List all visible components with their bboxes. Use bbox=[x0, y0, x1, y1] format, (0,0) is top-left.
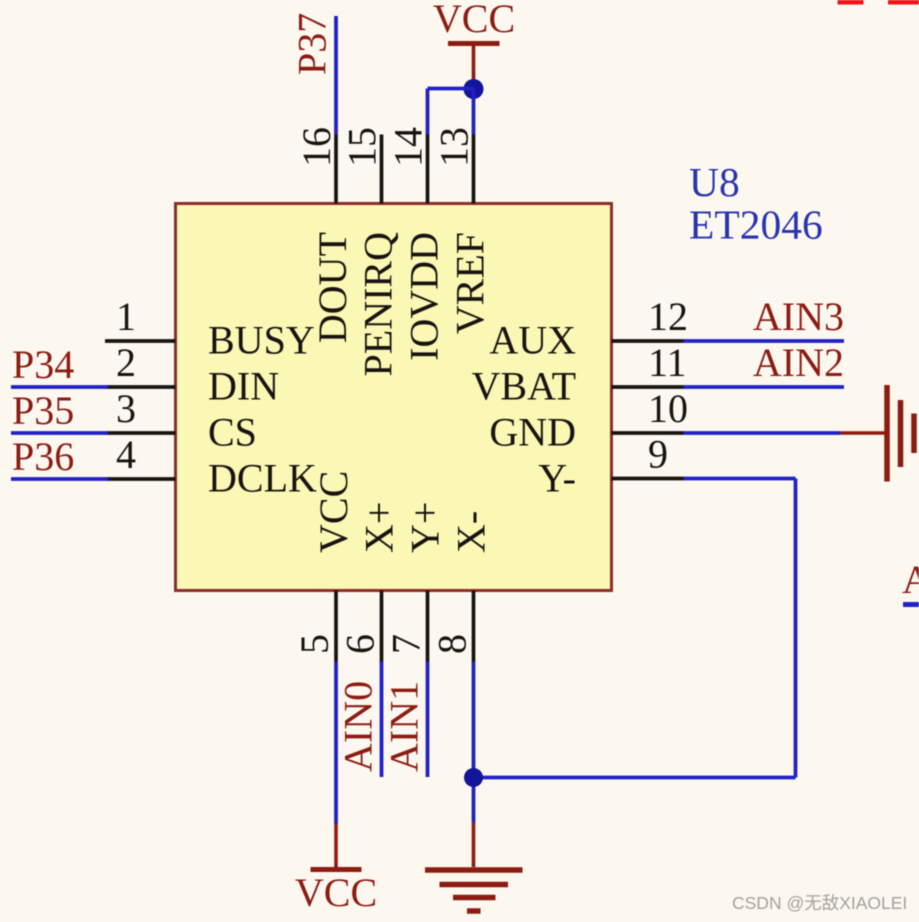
svg-text:DCLK: DCLK bbox=[208, 456, 317, 501]
pin name PENIRQ bbox=[356, 232, 401, 377]
svg-text:VCC: VCC bbox=[295, 870, 377, 915]
pin name CS bbox=[208, 410, 257, 455]
svg-text:12: 12 bbox=[648, 294, 688, 339]
wire net P35 bbox=[11, 431, 108, 435]
wire ground bottom red bbox=[472, 822, 476, 867]
ground bottom bar 4 bbox=[467, 908, 481, 914]
wire net GND right bbox=[684, 431, 841, 435]
pin 15 stub bbox=[380, 135, 384, 204]
pin name IOVDD bbox=[402, 232, 447, 361]
svg-text:VBAT: VBAT bbox=[472, 364, 576, 409]
pin name DCLK bbox=[208, 456, 317, 501]
pin 13 stub bbox=[472, 135, 476, 204]
svg-text:P37: P37 bbox=[290, 13, 335, 75]
pin 5 stub bbox=[334, 591, 338, 662]
svg-text:9: 9 bbox=[648, 432, 668, 477]
clipped component fragment bar 1 bbox=[838, 0, 864, 5]
svg-text:AIN1: AIN1 bbox=[382, 681, 427, 772]
pin 4 stub bbox=[106, 477, 176, 481]
wire VCC top vertical bbox=[472, 44, 476, 90]
ground right bar 2 bbox=[898, 400, 904, 467]
svg-text:DIN: DIN bbox=[208, 364, 279, 409]
svg-text:10: 10 bbox=[648, 386, 688, 431]
designator U8 bbox=[689, 159, 740, 205]
wire net P37 bbox=[334, 16, 338, 135]
pin 1 stub bbox=[105, 339, 176, 343]
svg-text:DOUT: DOUT bbox=[310, 232, 355, 343]
svg-text:4: 4 bbox=[116, 432, 136, 477]
wire net AIN0 bbox=[380, 662, 384, 778]
part number ET2046 bbox=[689, 202, 823, 248]
pin 6 number bbox=[338, 634, 383, 654]
ground bottom bar 1 bbox=[425, 867, 523, 873]
power VCC top text bbox=[433, 0, 515, 41]
ground right wire bbox=[840, 431, 885, 435]
pin 1 number bbox=[116, 294, 136, 339]
net label P34 bbox=[12, 342, 74, 387]
pin 16 number bbox=[294, 127, 339, 167]
pin name VCC bbox=[311, 471, 356, 553]
wire Y- net vertical bbox=[794, 479, 798, 778]
svg-text:Y+: Y+ bbox=[403, 502, 448, 553]
svg-text:13: 13 bbox=[432, 127, 477, 167]
pin 3 stub bbox=[106, 431, 176, 435]
pin 14 stub bbox=[426, 135, 430, 204]
pin name DIN bbox=[208, 364, 279, 409]
pin 14 number bbox=[386, 127, 431, 167]
svg-text:AIN3: AIN3 bbox=[753, 294, 844, 339]
junction bottom bbox=[464, 768, 483, 787]
pin 9 stub bbox=[612, 477, 684, 481]
pin 3 number bbox=[116, 386, 136, 431]
svg-text:P35: P35 bbox=[12, 388, 74, 433]
wire junction to pin 13 bbox=[472, 89, 476, 135]
wire Y- net horizontal bbox=[684, 477, 796, 481]
wire net P34 bbox=[11, 385, 108, 389]
svg-text:AIN2: AIN2 bbox=[753, 340, 844, 385]
svg-text:3: 3 bbox=[116, 386, 136, 431]
wire net AIN2 bbox=[684, 385, 845, 389]
pin 15 number bbox=[340, 127, 385, 167]
pin 2 number bbox=[116, 340, 136, 385]
wire net AIN1 bbox=[426, 662, 430, 778]
svg-text:8: 8 bbox=[430, 634, 475, 654]
pin name X- bbox=[449, 511, 494, 553]
pin name DOUT bbox=[310, 232, 355, 343]
svg-text:2: 2 bbox=[116, 340, 136, 385]
pin 12 stub bbox=[612, 339, 684, 343]
clipped component fragment bar 2 bbox=[888, 0, 919, 5]
svg-text:AUX: AUX bbox=[489, 318, 576, 363]
svg-text:IOVDD: IOVDD bbox=[402, 232, 447, 361]
ground right bar 3 bbox=[911, 414, 917, 454]
pin name Y- bbox=[538, 456, 576, 501]
svg-text:P36: P36 bbox=[12, 434, 74, 479]
pin name VBAT bbox=[472, 364, 576, 409]
svg-text:CSDN @无敌XIAOLEI: CSDN @无敌XIAOLEI bbox=[732, 893, 907, 913]
pin 8 number bbox=[430, 634, 475, 654]
pin 12 number bbox=[648, 294, 688, 339]
net label P37 bbox=[290, 13, 335, 75]
svg-text:PENIRQ: PENIRQ bbox=[356, 232, 401, 377]
svg-text:GND: GND bbox=[489, 410, 576, 455]
power VCC bottom bar bbox=[311, 867, 362, 872]
wire pin 8 down bbox=[472, 662, 476, 823]
svg-text:VCC: VCC bbox=[433, 0, 515, 41]
pin 5 number bbox=[292, 634, 337, 654]
svg-text:15: 15 bbox=[340, 127, 385, 167]
ground bottom bar 3 bbox=[453, 895, 496, 901]
wire net P36 bbox=[11, 477, 108, 481]
svg-text:X+: X+ bbox=[357, 502, 402, 553]
pin 8 stub bbox=[472, 591, 476, 662]
net label AIN0 bbox=[336, 681, 381, 772]
net label P36 bbox=[12, 434, 74, 479]
pin 4 number bbox=[116, 432, 136, 477]
svg-text:16: 16 bbox=[294, 127, 339, 167]
wire junction to pin 14 vertical bbox=[426, 89, 430, 135]
net label AIN3 bbox=[753, 294, 844, 339]
svg-text:1: 1 bbox=[116, 294, 136, 339]
svg-text:VREF: VREF bbox=[448, 232, 493, 334]
ground bottom bar 2 bbox=[440, 882, 509, 888]
svg-text:6: 6 bbox=[338, 634, 383, 654]
net label AIN2 bbox=[753, 340, 844, 385]
pin name VREF bbox=[448, 232, 493, 334]
net label A underline bbox=[903, 602, 919, 607]
svg-text:U8: U8 bbox=[689, 159, 740, 205]
svg-text:BUSY: BUSY bbox=[208, 318, 315, 363]
pin 16 stub bbox=[334, 135, 338, 204]
pin 11 number bbox=[648, 340, 687, 385]
net label AIN1 bbox=[382, 681, 427, 772]
pin name BUSY bbox=[208, 318, 315, 363]
svg-text:ET2046: ET2046 bbox=[689, 202, 823, 248]
pin 7 number bbox=[384, 634, 429, 654]
net label P35 bbox=[12, 388, 74, 433]
wire junction to pin 14 horizontal bbox=[428, 87, 474, 91]
power VCC top bar bbox=[448, 41, 500, 46]
svg-text:Y-: Y- bbox=[538, 456, 576, 501]
ground right bar 1 bbox=[884, 385, 890, 482]
svg-text:AIN4: AIN4 bbox=[902, 557, 919, 602]
pin name X+ bbox=[357, 502, 402, 553]
junction top bbox=[464, 79, 484, 99]
svg-text:7: 7 bbox=[384, 634, 429, 654]
pin 6 stub bbox=[380, 591, 384, 662]
wire Y- net bottom horizontal bbox=[474, 776, 796, 780]
svg-text:P34: P34 bbox=[12, 342, 74, 387]
power VCC bottom text bbox=[295, 870, 377, 915]
svg-text:14: 14 bbox=[386, 127, 431, 167]
wire pin 5 to VCC bbox=[334, 662, 338, 824]
pin name GND bbox=[489, 410, 576, 455]
pin name Y+ bbox=[403, 502, 448, 553]
svg-text:VCC: VCC bbox=[311, 471, 356, 553]
pin 10 stub bbox=[612, 431, 684, 435]
wire VCC bottom red bbox=[334, 824, 338, 868]
pin 13 number bbox=[432, 127, 477, 167]
svg-text:AIN0: AIN0 bbox=[336, 681, 381, 772]
net label A (clipped) bbox=[902, 557, 919, 602]
svg-text:X-: X- bbox=[449, 511, 494, 553]
pin 11 stub bbox=[612, 385, 684, 389]
watermark bbox=[732, 893, 907, 913]
svg-text:11: 11 bbox=[648, 340, 687, 385]
pin 7 stub bbox=[426, 591, 430, 662]
wire net AIN3 bbox=[684, 339, 845, 343]
svg-text:5: 5 bbox=[292, 634, 337, 654]
svg-text:CS: CS bbox=[208, 410, 257, 455]
pin 10 number bbox=[648, 386, 688, 431]
pin name AUX bbox=[489, 318, 576, 363]
pin 2 stub bbox=[106, 385, 176, 389]
IC U8 body bbox=[176, 204, 612, 591]
pin 9 number bbox=[648, 432, 668, 477]
